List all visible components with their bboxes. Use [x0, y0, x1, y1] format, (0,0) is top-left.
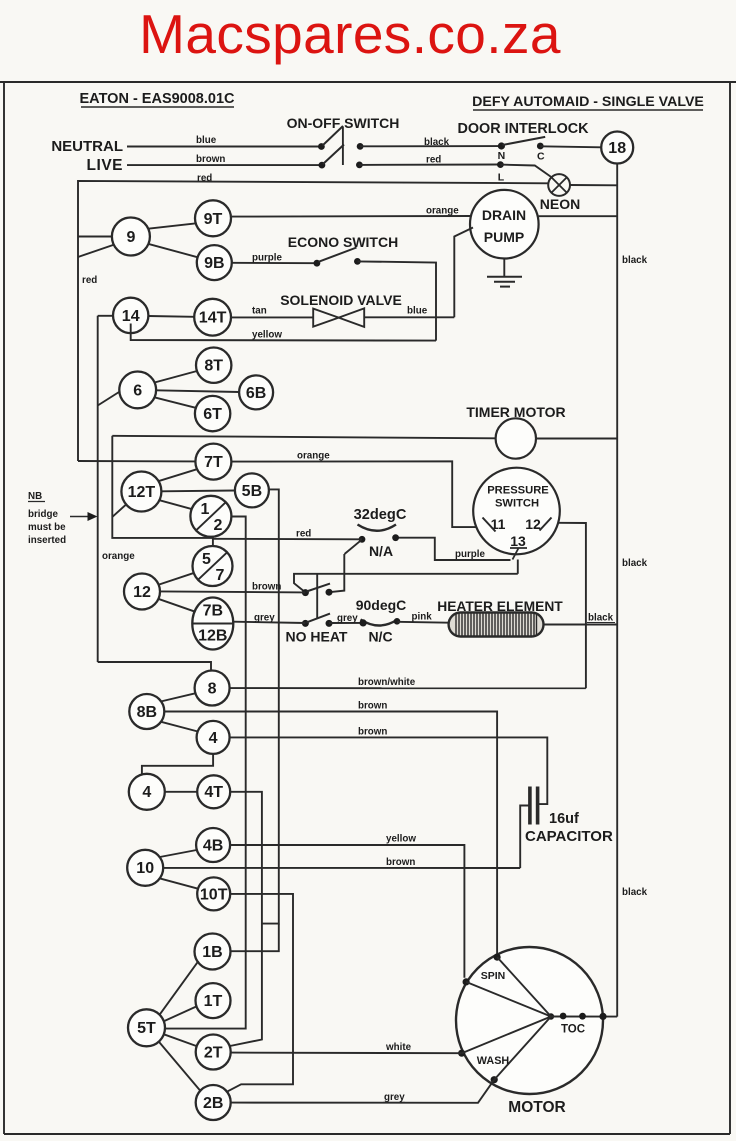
- svg-text:5T: 5T: [137, 1020, 156, 1037]
- wire brown 10 right to capacitor: [163, 867, 520, 869]
- svg-text:blue: blue: [196, 135, 217, 146]
- contact L: [497, 161, 504, 168]
- svg-text:4: 4: [209, 730, 218, 747]
- wire 12T to 7T: [158, 469, 196, 481]
- wire C to node 18: [540, 146, 601, 147]
- node 10: [127, 850, 163, 886]
- switch 90degC contacts: [360, 619, 367, 626]
- svg-text:red: red: [197, 173, 212, 184]
- node 1B: [195, 934, 231, 970]
- wire brown 4 right to capacitor: [230, 737, 548, 804]
- svg-text:18: 18: [608, 140, 626, 157]
- svg-text:WASH: WASH: [477, 1055, 510, 1067]
- svg-text:NB: NB: [28, 491, 42, 502]
- node 14T: [194, 299, 231, 336]
- wire live brown: [127, 164, 322, 166]
- switch 90degC arc: [361, 620, 398, 626]
- node 6T: [195, 396, 230, 431]
- node 1T: [196, 983, 231, 1018]
- svg-text:10: 10: [136, 860, 154, 877]
- wire 10 to 4B: [160, 850, 197, 857]
- svg-text:brown: brown: [386, 857, 415, 868]
- svg-text:grey: grey: [254, 613, 275, 624]
- wire orange 7T to pressure switch: [231, 461, 476, 527]
- svg-text:orange: orange: [297, 451, 330, 462]
- wire orange left vertical: [97, 316, 99, 662]
- node 12T: [121, 472, 161, 512]
- svg-text:yellow: yellow: [252, 330, 282, 341]
- wire yellow 14 to econo corner: [131, 324, 436, 341]
- wire 9 to 9B: [148, 244, 198, 257]
- svg-text:2: 2: [214, 517, 223, 534]
- node 8T: [196, 348, 231, 383]
- contact N: [498, 142, 505, 149]
- motor MOTOR: [456, 947, 603, 1094]
- svg-text:12B: 12B: [198, 628, 227, 645]
- switch PRESSURE label: [473, 468, 560, 555]
- node 6B: [239, 375, 273, 409]
- svg-text:LIVE: LIVE: [87, 157, 123, 174]
- svg-text:1B: 1B: [202, 944, 222, 961]
- wire 1B jog: [231, 924, 279, 952]
- wire 8B to 8: [161, 693, 197, 701]
- wire neutral blue: [127, 146, 321, 148]
- node 12: [124, 574, 160, 610]
- svg-text:12T: 12T: [128, 484, 156, 501]
- svg-text:brown: brown: [252, 582, 281, 593]
- wire 5T to 2T: [164, 1034, 196, 1046]
- wire 8B to 4: [161, 722, 198, 732]
- svg-text:6B: 6B: [246, 385, 266, 402]
- node 2T: [196, 1035, 231, 1070]
- svg-text:10T: 10T: [200, 886, 228, 903]
- svg-text:5: 5: [202, 551, 211, 568]
- svg-text:4: 4: [142, 784, 151, 801]
- svg-text:grey: grey: [384, 1092, 405, 1103]
- svg-text:14T: 14T: [199, 310, 227, 327]
- svg-text:DEFY AUTOMAID - SINGLE VALVE: DEFY AUTOMAID - SINGLE VALVE: [472, 94, 704, 110]
- wire red lower: [78, 181, 548, 237]
- svg-text:TOC: TOC: [561, 1024, 585, 1036]
- svg-text:NEON: NEON: [540, 196, 580, 212]
- node 8B: [129, 694, 164, 729]
- node 4T: [197, 775, 230, 808]
- wire black to door interlock: [360, 145, 501, 147]
- svg-text:N/A: N/A: [369, 543, 393, 559]
- wire grey 7B12B to no-heat: [233, 622, 305, 623]
- svg-text:N: N: [498, 150, 506, 162]
- node 4 left: [129, 774, 165, 810]
- wire vertical red left: [77, 237, 79, 462]
- motor hub: [548, 1013, 554, 1019]
- svg-text:C: C: [537, 151, 545, 163]
- svg-text:black: black: [622, 887, 648, 898]
- wire node 8 top feed: [98, 662, 211, 671]
- wire 14 to 14T: [148, 315, 194, 318]
- wire pink: [398, 621, 449, 624]
- motor spin contact 1: [494, 954, 501, 961]
- svg-text:MOTOR: MOTOR: [508, 1099, 565, 1116]
- svg-text:black: black: [588, 613, 614, 624]
- svg-text:CAPACITOR: CAPACITOR: [525, 828, 613, 845]
- wire 14 left to orange vertical: [98, 315, 113, 317]
- wire red to 32degC: [213, 538, 362, 541]
- node 1/2: [190, 496, 231, 537]
- wire tan 14T to solenoid: [231, 316, 313, 318]
- node 14: [113, 298, 148, 333]
- svg-text:9B: 9B: [204, 255, 224, 272]
- node 9: [112, 218, 150, 256]
- svg-text:orange: orange: [102, 551, 135, 562]
- svg-text:2T: 2T: [204, 1044, 223, 1061]
- svg-text:4T: 4T: [204, 784, 223, 801]
- wire 5T to 2B: [159, 1042, 201, 1091]
- motor DRAIN PUMP: [470, 190, 539, 259]
- wire bus B from 4T to 2T: [228, 792, 262, 1047]
- svg-text:must be: must be: [28, 522, 66, 533]
- contact C: [537, 143, 544, 150]
- wire 6 to 8T: [155, 371, 198, 383]
- wire red vertical to 7T: [78, 460, 195, 462]
- switch no-heat grey contacts: [302, 620, 309, 627]
- wire capacitor left lead: [520, 806, 528, 869]
- node 18: [601, 132, 633, 164]
- wire 6 to orange vertical: [98, 392, 120, 406]
- valve solenoid symbol: [313, 309, 339, 327]
- heater element body: [449, 613, 544, 637]
- svg-text:9T: 9T: [204, 211, 223, 228]
- svg-text:6T: 6T: [203, 406, 222, 423]
- node 8: [195, 671, 230, 706]
- ground symbol: [503, 259, 505, 277]
- wire 4 down to 4 left: [142, 754, 213, 774]
- node 9B: [197, 245, 232, 280]
- switch no-heat brown contacts: [302, 589, 309, 596]
- node 7B 12B: [192, 598, 233, 650]
- wire stub to 9: [78, 236, 112, 238]
- svg-text:NO HEAT: NO HEAT: [286, 629, 348, 645]
- node 9T: [195, 200, 231, 236]
- svg-text:90degC: 90degC: [356, 597, 407, 613]
- node 4 right: [197, 721, 230, 754]
- wire 12 to brown-white drop: [558, 523, 586, 688]
- svg-text:L: L: [498, 172, 505, 184]
- switch on-off linkage: [342, 127, 344, 166]
- diagram border frame: [0, 81, 736, 83]
- switch on-off pole 1: [318, 143, 325, 150]
- wire 13 drop: [517, 560, 519, 574]
- node 7T: [195, 444, 231, 480]
- svg-text:16uf: 16uf: [549, 811, 579, 827]
- wire white 2T to motor: [231, 1052, 462, 1055]
- door interlock blade: [502, 137, 545, 145]
- wire purple 9B to econo: [232, 262, 317, 264]
- motor spin contact 2: [463, 978, 470, 985]
- motor wash contact 2: [491, 1076, 498, 1083]
- node 4B: [196, 828, 230, 862]
- wire drain pump to black vertical: [539, 215, 618, 217]
- wire bus C from 5B to 1B jog: [262, 489, 279, 923]
- note arrow: [70, 516, 91, 518]
- svg-text:1: 1: [201, 501, 210, 518]
- svg-text:orange: orange: [426, 206, 459, 217]
- svg-text:SPIN: SPIN: [481, 970, 506, 982]
- svg-text:brown: brown: [358, 727, 387, 738]
- wire neon to black vertical: [570, 184, 617, 186]
- svg-text:2B: 2B: [203, 1095, 223, 1112]
- svg-text:black: black: [622, 558, 648, 569]
- svg-text:pink: pink: [412, 612, 433, 623]
- wire heater black: [544, 624, 618, 626]
- svg-text:7B: 7B: [203, 603, 223, 620]
- wire 32degC blade drop to no-heat: [330, 554, 344, 592]
- wire 4 left to 4T: [165, 791, 197, 793]
- wire drain pump to solenoid blue: [454, 228, 473, 318]
- wire 5T to 1B: [160, 961, 199, 1015]
- svg-text:7: 7: [216, 567, 225, 584]
- wire bus D from 10T to 2B: [228, 894, 293, 1091]
- switch linkage: [316, 574, 318, 619]
- svg-text:brown: brown: [358, 701, 387, 712]
- svg-text:4B: 4B: [203, 837, 223, 854]
- svg-text:purple: purple: [455, 549, 485, 560]
- motor timer circle: [496, 418, 536, 458]
- wire econo to right corner: [357, 261, 436, 340]
- node 5T: [128, 1009, 165, 1046]
- svg-text:black: black: [424, 137, 450, 148]
- wire 12T to 1/2: [159, 500, 192, 509]
- svg-text:brown/white: brown/white: [358, 677, 416, 688]
- wire blue solenoid to pump drop: [364, 316, 454, 318]
- wire 12 to 5/7: [159, 573, 195, 585]
- svg-text:9: 9: [126, 229, 135, 246]
- svg-text:8B: 8B: [137, 704, 157, 721]
- svg-text:N/C: N/C: [368, 629, 392, 645]
- node 5/7: [193, 546, 233, 586]
- svg-text:SWITCH: SWITCH: [495, 498, 539, 510]
- node 2B: [196, 1085, 231, 1120]
- wire yellow 4B right: [230, 845, 464, 978]
- svg-text:yellow: yellow: [386, 834, 416, 845]
- wire black main right vertical: [616, 164, 618, 1017]
- wire L to neon: [500, 165, 551, 177]
- svg-text:black: black: [622, 255, 648, 266]
- svg-text:PUMP: PUMP: [484, 229, 524, 245]
- svg-text:bridge: bridge: [28, 509, 58, 520]
- svg-text:12: 12: [133, 584, 151, 601]
- wire 9 diagonal to red vertical: [78, 245, 115, 258]
- wire brown 8B right: [164, 712, 497, 958]
- svg-text:blue: blue: [407, 306, 428, 317]
- svg-text:6: 6: [133, 382, 142, 399]
- wire 12T diagonal to riser: [112, 505, 126, 517]
- wire orange 9T to drain pump: [232, 215, 471, 218]
- capacitor C1 16uf: [528, 787, 532, 825]
- wire timer motor left: [112, 436, 495, 439]
- wire bus A from 1/2 to 5T: [165, 517, 246, 1029]
- svg-text:tan: tan: [252, 306, 267, 317]
- switch 32degC arc: [358, 525, 397, 531]
- svg-text:Macspares.co.za: Macspares.co.za: [139, 3, 561, 65]
- svg-text:14: 14: [122, 308, 140, 325]
- svg-text:purple: purple: [252, 253, 282, 264]
- motor toc line: [551, 1016, 617, 1018]
- wire 12 to 7B12B: [158, 599, 195, 612]
- svg-text:5B: 5B: [242, 483, 262, 500]
- wire purple 32degC to 13: [396, 538, 511, 560]
- node 6: [119, 372, 156, 409]
- svg-text:DRAIN: DRAIN: [482, 207, 526, 223]
- svg-text:ECONO SWITCH: ECONO SWITCH: [288, 234, 398, 250]
- wire brown-white 8 right: [230, 687, 586, 689]
- switch 32degC contacts: [359, 536, 366, 543]
- node 5B: [235, 473, 269, 507]
- switch econo contacts: [314, 260, 321, 267]
- wire 6 to 6T: [154, 397, 196, 408]
- wire brown 12 to no-heat: [160, 591, 305, 592]
- wire red to door interlock L: [359, 164, 500, 166]
- svg-text:DOOR INTERLOCK: DOOR INTERLOCK: [457, 121, 589, 137]
- svg-text:red: red: [296, 529, 311, 540]
- svg-text:red: red: [82, 275, 97, 286]
- svg-text:white: white: [385, 1042, 412, 1053]
- svg-text:inserted: inserted: [28, 535, 66, 546]
- wire 13 feed to no-heat: [294, 574, 518, 592]
- wire 6 to 6B: [156, 390, 239, 392]
- svg-text:EATON - EAS9008.01C: EATON - EAS9008.01C: [80, 91, 236, 107]
- svg-text:8T: 8T: [204, 358, 223, 375]
- svg-text:grey: grey: [337, 613, 358, 624]
- svg-text:1T: 1T: [204, 993, 223, 1010]
- wire 10 to 10T: [160, 878, 198, 888]
- svg-text:12: 12: [525, 516, 541, 532]
- motor wash contact 1: [458, 1050, 465, 1057]
- lamp NEON: [548, 174, 570, 196]
- svg-text:NEUTRAL: NEUTRAL: [51, 138, 123, 155]
- svg-text:red: red: [426, 155, 441, 166]
- svg-text:SOLENOID VALVE: SOLENOID VALVE: [280, 292, 402, 308]
- svg-text:PRESSURE: PRESSURE: [487, 485, 549, 497]
- node 10T: [197, 877, 230, 910]
- wire 12T to 5B: [161, 490, 235, 493]
- wire 5T to 1T: [164, 1007, 197, 1022]
- wire 12T riser: [112, 436, 213, 546]
- wire grey 2B to motor: [231, 1080, 495, 1103]
- svg-text:13: 13: [510, 533, 526, 549]
- switch on-off pole 2: [319, 162, 326, 169]
- svg-text:brown: brown: [196, 154, 225, 165]
- wire grey to 90degC: [329, 622, 363, 624]
- wire 9 to 9T: [148, 223, 196, 228]
- svg-text:32degC: 32degC: [354, 507, 407, 523]
- svg-text:7T: 7T: [204, 454, 223, 471]
- wire timer motor right: [536, 438, 617, 440]
- svg-text:8: 8: [208, 680, 217, 697]
